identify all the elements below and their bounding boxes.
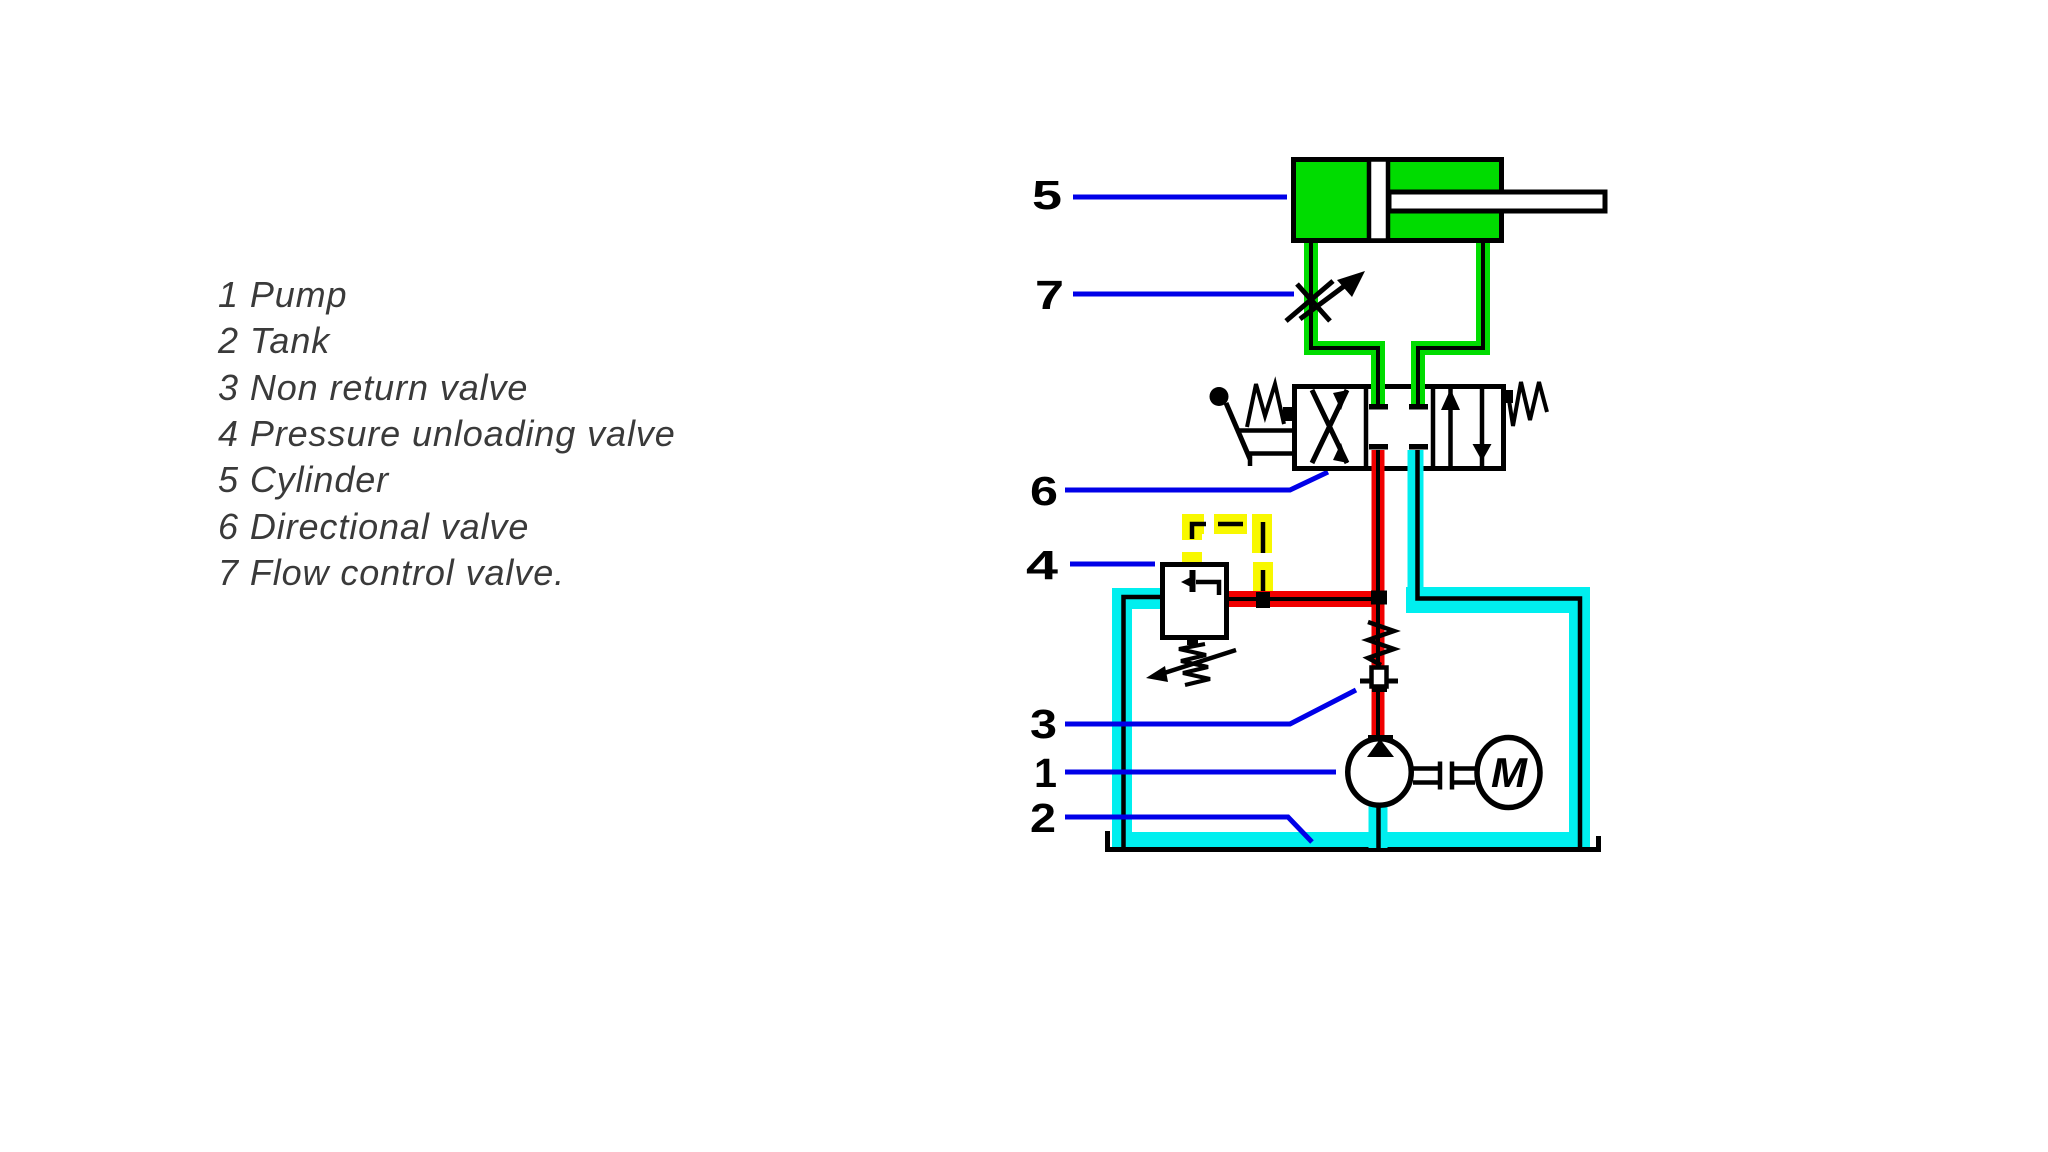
yellow pilot line dashed [1192, 514, 1263, 592]
leader line 7 [1073, 292, 1294, 297]
junction node red main [1371, 591, 1387, 605]
non return valve 3 spring [1368, 622, 1394, 665]
valve 6 parallel arrows [1451, 387, 1483, 469]
pump 1 outlet triangle [1368, 735, 1393, 741]
svg-text:M: M [1491, 749, 1528, 796]
cylinder 5 barrel [1294, 160, 1502, 241]
svg-text:6 Directional valve: 6 Directional valve [218, 506, 529, 547]
svg-text:1 Pump: 1 Pump [218, 274, 347, 315]
pressure unloading valve 4 body [1163, 565, 1227, 638]
svg-text:2 Tank: 2 Tank [217, 320, 331, 361]
green pipe right cylinder to valve [1418, 243, 1483, 406]
valve 6 lever ball [1210, 387, 1229, 406]
svg-text:5: 5 [1032, 172, 1062, 218]
pump 1 circle [1348, 739, 1412, 806]
non return valve 3 poppet [1372, 668, 1387, 687]
valve 6 lever arm [1226, 403, 1250, 459]
cyan return line from valve to tank [1408, 452, 1424, 600]
leader line 1 [1065, 770, 1336, 775]
leader line 4 [1070, 562, 1155, 567]
leader line 5 [1073, 195, 1287, 200]
flow control valve 7 X [1286, 281, 1333, 321]
leader line 6 [1065, 472, 1328, 490]
tank 2 black inner lines [1124, 597, 1161, 850]
svg-text:5 Cylinder: 5 Cylinder [218, 459, 390, 500]
junction node red/yellow [1256, 592, 1270, 608]
leader line 3 [1065, 690, 1356, 724]
legend text list [217, 274, 676, 593]
non return valve 3 seat wings [1360, 679, 1398, 684]
valve 6 port T-bars [1369, 404, 1388, 410]
svg-text:4: 4 [1026, 542, 1058, 588]
cyan return below valve crossing border [1408, 450, 1424, 476]
valve 6 divider 2 [1431, 384, 1436, 471]
svg-text:2: 2 [1030, 795, 1056, 841]
cylinder 5 piston [1369, 160, 1388, 241]
valve 6 divider 1 [1364, 384, 1369, 471]
return line black center [1418, 452, 1581, 850]
valve 6 left spring [1247, 384, 1284, 427]
valve 6 lever frame [1237, 431, 1294, 467]
svg-text:7: 7 [1035, 272, 1064, 318]
green pipe left cylinder to valve [1311, 243, 1378, 406]
svg-text:3 Non return valve: 3 Non return valve [218, 367, 528, 408]
svg-text:1: 1 [1034, 750, 1057, 796]
coupling shaft [1413, 762, 1475, 790]
valve 6 right spring [1509, 382, 1547, 426]
svg-text:6: 6 [1030, 468, 1058, 514]
tank 2 black container bottom [1108, 831, 1599, 850]
flow control valve 7 arrow [1300, 284, 1347, 319]
leader line 2 [1065, 817, 1312, 842]
motor M circle [1477, 738, 1540, 808]
red pressure line horizontal from valve 4 [1229, 591, 1378, 607]
directional valve 6 body [1295, 387, 1504, 469]
tank 2 cyan outline [1112, 594, 1590, 848]
valve 6 crossed arrows X [1312, 390, 1347, 463]
cylinder 5 rod [1389, 192, 1605, 211]
svg-text:3: 3 [1030, 701, 1057, 747]
valve 4 adjustment arrow [1158, 650, 1236, 675]
valve 4 internal arrow [1196, 582, 1219, 595]
valve 4 spring [1187, 640, 1198, 645]
svg-text:7 Flow control valve.: 7 Flow control valve. [218, 552, 565, 593]
red pressure line vertical [1372, 450, 1385, 740]
pump suction line [1369, 806, 1388, 848]
svg-text:4 Pressure unloading valve: 4 Pressure unloading valve [218, 413, 676, 454]
